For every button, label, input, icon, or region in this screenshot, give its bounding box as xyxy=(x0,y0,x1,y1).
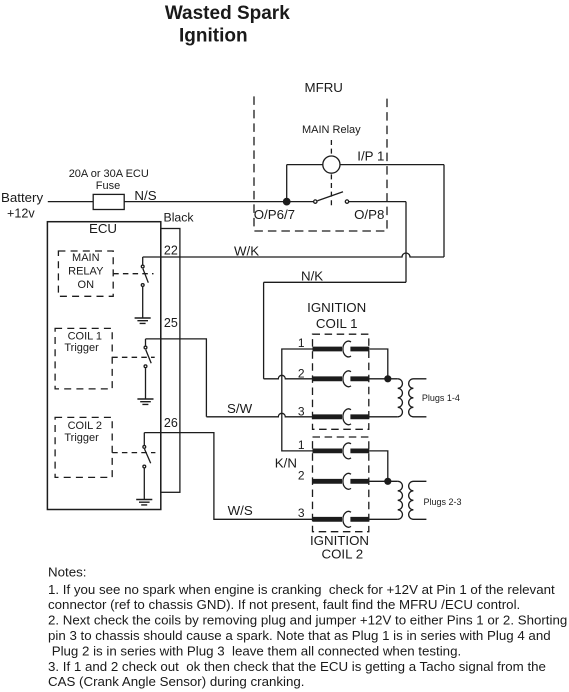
node O/P6/7 junction dot xyxy=(283,198,291,206)
wire coil T2 pin 2 to primary top xyxy=(369,480,397,482)
wire vertical I/P 1 feed xyxy=(443,165,445,257)
relay K1 dashed actuation line xyxy=(330,140,332,208)
svg-text:RELAY: RELAY xyxy=(68,265,104,277)
wire N/K vertical down to coil 1 pin 2 xyxy=(263,282,265,379)
svg-text:pin 3 to chassis should cause: pin 3 to chassis should cause a spark. N… xyxy=(48,628,551,643)
svg-text:COIL 2: COIL 2 xyxy=(68,420,102,432)
svg-text:W/S: W/S xyxy=(228,503,253,518)
wire pin 26 to W/S to coil 2 pin 3 xyxy=(144,433,312,520)
svg-text:1: 1 xyxy=(298,336,305,350)
coil T1 pin 2 connector socket arc xyxy=(343,371,351,387)
svg-text:Notes:: Notes: xyxy=(48,565,86,580)
inductor T1 secondary winding xyxy=(409,379,427,417)
dashed control line COIL 1 Trigger to switch Q2 xyxy=(112,356,155,358)
svg-text:COIL 1: COIL 1 xyxy=(68,331,102,343)
inductor T2 secondary winding xyxy=(409,481,427,519)
svg-text:W/K: W/K xyxy=(234,244,259,259)
wire pin 25 to S/W vertical xyxy=(146,339,207,417)
svg-text:1. If you see no spark when en: 1. If you see no spark when engine is cr… xyxy=(48,582,555,597)
coil T1 pin 3 contact bars xyxy=(313,414,370,419)
relay K1 contact: right pole circle O/P8 xyxy=(345,200,348,203)
wire coil T2 pin 3 to primary bottom xyxy=(369,518,397,520)
MFRU dashed enclosure xyxy=(254,96,387,231)
svg-text:CAS (Crank Angle Sensor) durin: CAS (Crank Angle Sensor) during cranking… xyxy=(48,674,304,689)
switch Q2 pin 25 driver xyxy=(145,339,147,346)
svg-text:I/P 1: I/P 1 xyxy=(357,148,384,163)
wire node O/P6/7 up to relay coil xyxy=(286,165,288,202)
relay K1 contact: left pole circle xyxy=(314,200,317,203)
svg-text:Ignition: Ignition xyxy=(179,25,248,46)
svg-text:2: 2 xyxy=(298,367,305,381)
wire coil T1 pin 3 to primary bottom xyxy=(369,416,397,418)
ground G1 xyxy=(135,318,151,323)
wire K/N link coil1 pin1 to coil2 pin1 xyxy=(282,349,313,451)
svg-text:COIL 1: COIL 1 xyxy=(316,316,358,331)
node T1 primary junction dot xyxy=(384,375,391,382)
switch Q3 pin 26 driver xyxy=(143,433,145,446)
wire pin 22 to W/K to MFRU I/P 1, hop over O/P8 wire xyxy=(143,253,444,257)
dashed box COIL 2 Trigger xyxy=(55,417,112,477)
svg-text:2. Next check the coils by rem: 2. Next check the coils by removing plug… xyxy=(48,613,567,628)
coil T1 pin 1 connector socket arc xyxy=(343,341,351,357)
coil T1 pin 3 connector socket arc xyxy=(343,409,351,425)
coil T2 pin 2 connector socket arc xyxy=(343,473,351,489)
svg-text:20A or 30A ECU: 20A or 30A ECU xyxy=(69,168,149,180)
svg-text:K/N: K/N xyxy=(275,456,297,471)
wire S/W to coil 1 pin 3, hop over K/N link xyxy=(206,413,312,416)
svg-text:connector (ref to chassis GND): connector (ref to chassis GND). If not p… xyxy=(48,597,520,612)
svg-text:3. If 1 and 2 check out ok th: 3. If 1 and 2 check out ok then check th… xyxy=(48,659,546,674)
coil T1 pin 1 contact bars xyxy=(313,347,370,352)
svg-text:MFRU: MFRU xyxy=(305,80,343,95)
dashed control line COIL 2 Trigger to switch Q3 xyxy=(112,452,155,454)
wire vertical O/P8 down to N/K xyxy=(405,202,407,283)
dashed box MAIN RELAY ON xyxy=(58,251,113,296)
switch Q1 pin 22 driver xyxy=(142,257,144,265)
svg-text:Plugs 2-3: Plugs 2-3 xyxy=(424,497,462,507)
wire battery +12v feed to fuse xyxy=(48,201,93,203)
ECU box xyxy=(47,222,160,510)
coil T2 pin 2 contact bars xyxy=(313,479,370,484)
wire to coil 1 pin 2, hop over K/N link xyxy=(264,375,313,379)
dashed box COIL 1 Trigger xyxy=(55,328,112,389)
svg-text:Wasted Spark: Wasted Spark xyxy=(165,3,290,24)
inductor T1 primary winding xyxy=(398,379,403,417)
fuse F1 20A/30A body xyxy=(93,194,124,209)
svg-text:O/P6/7: O/P6/7 xyxy=(254,207,295,222)
ground G2 xyxy=(137,399,153,404)
svg-text:IGNITION: IGNITION xyxy=(307,300,366,315)
svg-text:+12v: +12v xyxy=(7,207,35,221)
ground G3 xyxy=(136,500,152,505)
wire N/K horizontal xyxy=(264,281,406,283)
svg-text:Trigger: Trigger xyxy=(64,342,99,354)
inductor T2 primary winding xyxy=(398,481,403,519)
svg-text:MAIN: MAIN xyxy=(72,252,100,264)
wire relay coil row I/P 1 xyxy=(287,164,444,166)
svg-text:26: 26 xyxy=(164,416,178,430)
svg-text:N/K: N/K xyxy=(301,269,323,284)
svg-text:S/W: S/W xyxy=(227,401,253,416)
coil T2 pin 1 contact bars xyxy=(313,448,370,453)
wire coil T1 pin 1 to primary node xyxy=(369,349,388,376)
ignition coil T2 dashed box xyxy=(313,437,369,532)
wire coil T2 pin 1 to primary node xyxy=(369,451,388,478)
dashed control line MAIN RELAY ON to switch Q1 xyxy=(113,273,153,275)
svg-text:3: 3 xyxy=(298,404,305,418)
svg-text:Fuse: Fuse xyxy=(96,180,120,192)
svg-text:MAIN Relay: MAIN Relay xyxy=(302,124,361,136)
svg-text:N/S: N/S xyxy=(134,188,156,203)
relay K1 contact arm xyxy=(318,192,344,201)
svg-text:Battery: Battery xyxy=(1,190,43,205)
svg-text:Black: Black xyxy=(164,211,195,225)
connector strip Black xyxy=(161,229,180,493)
svg-text:ON: ON xyxy=(78,279,95,291)
svg-text:COIL 2: COIL 2 xyxy=(321,547,363,562)
svg-text:Trigger: Trigger xyxy=(64,432,99,444)
svg-text:22: 22 xyxy=(164,243,178,257)
svg-text:1: 1 xyxy=(298,438,305,452)
coil T2 pin 1 connector socket arc xyxy=(343,443,351,459)
svg-text:3: 3 xyxy=(298,506,305,520)
coil T1 pin 2 contact bars xyxy=(313,376,370,381)
svg-text:O/P8: O/P8 xyxy=(354,207,384,222)
svg-text:Plugs 1-4: Plugs 1-4 xyxy=(422,393,460,403)
node T2 primary junction dot xyxy=(384,478,391,485)
ignition coil T1 dashed box xyxy=(313,334,369,429)
svg-text:2: 2 xyxy=(298,468,305,482)
relay K1 coil circle xyxy=(323,156,340,173)
svg-text:25: 25 xyxy=(164,316,178,330)
coil T2 pin 3 connector socket arc xyxy=(343,511,351,527)
coil T2 pin 3 contact bars xyxy=(313,517,370,522)
svg-text:ECU: ECU xyxy=(89,221,117,236)
svg-text:Plug 2 is in series with Plug: Plug 2 is in series with Plug 3 leave th… xyxy=(48,643,461,658)
wire O/P8 to right xyxy=(349,201,406,203)
wire N/S fuse to MFRU junction xyxy=(124,201,313,203)
wire coil T1 pin 2 to primary top xyxy=(369,378,397,380)
